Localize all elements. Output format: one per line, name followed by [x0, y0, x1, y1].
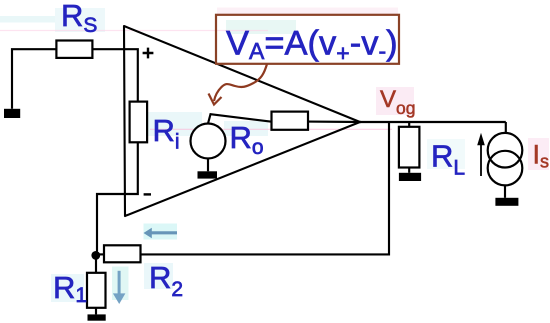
resistor R1 — [87, 273, 106, 308]
feedback wire (output down and left to R2) — [141, 122, 390, 254]
plus input marker — [143, 48, 154, 59]
wire source top to Ro — [208, 114, 272, 123]
op-amp triangle — [124, 26, 360, 216]
wire R2 to junction — [96, 253, 104, 255]
current source direction arrow — [480, 143, 482, 176]
wire Ro to output vertex — [308, 121, 361, 124]
wire output to current source — [505, 122, 507, 133]
ground (under dependent source) — [198, 171, 218, 178]
junction node — [91, 251, 100, 260]
feedback current arrow (cyan, pointing left) — [144, 228, 178, 239]
wire Ri bottom to minus input and down to junction — [97, 142, 138, 251]
ground (under current source) — [495, 198, 518, 206]
wire ground to RS — [12, 49, 56, 109]
wire R1 to ground — [95, 308, 97, 315]
annotation arrow from box to source — [214, 64, 267, 101]
wire RS to + input / Ri top — [92, 49, 137, 101]
current source Is (two circles) — [488, 133, 523, 168]
dependent source VA circle — [191, 124, 226, 159]
annotation box for VA formula — [216, 15, 399, 64]
resistor R2 — [104, 245, 141, 262]
ground (top-left) — [4, 109, 20, 118]
minus input marker — [144, 193, 151, 195]
ground (under R1) — [88, 314, 106, 320]
ground (under RL) — [399, 173, 421, 181]
resistor RS — [56, 41, 92, 58]
output wire — [360, 121, 506, 123]
current arrow through R1 (cyan, pointing down) — [118, 271, 121, 294]
resistor RL — [399, 127, 420, 168]
wire RL to ground — [408, 168, 410, 173]
resistor Ro — [272, 112, 309, 130]
wire output to RL — [408, 122, 410, 127]
resistor Ri — [130, 102, 148, 143]
wire current source to ground — [504, 185, 506, 197]
wire junction to R1 — [95, 255, 97, 273]
